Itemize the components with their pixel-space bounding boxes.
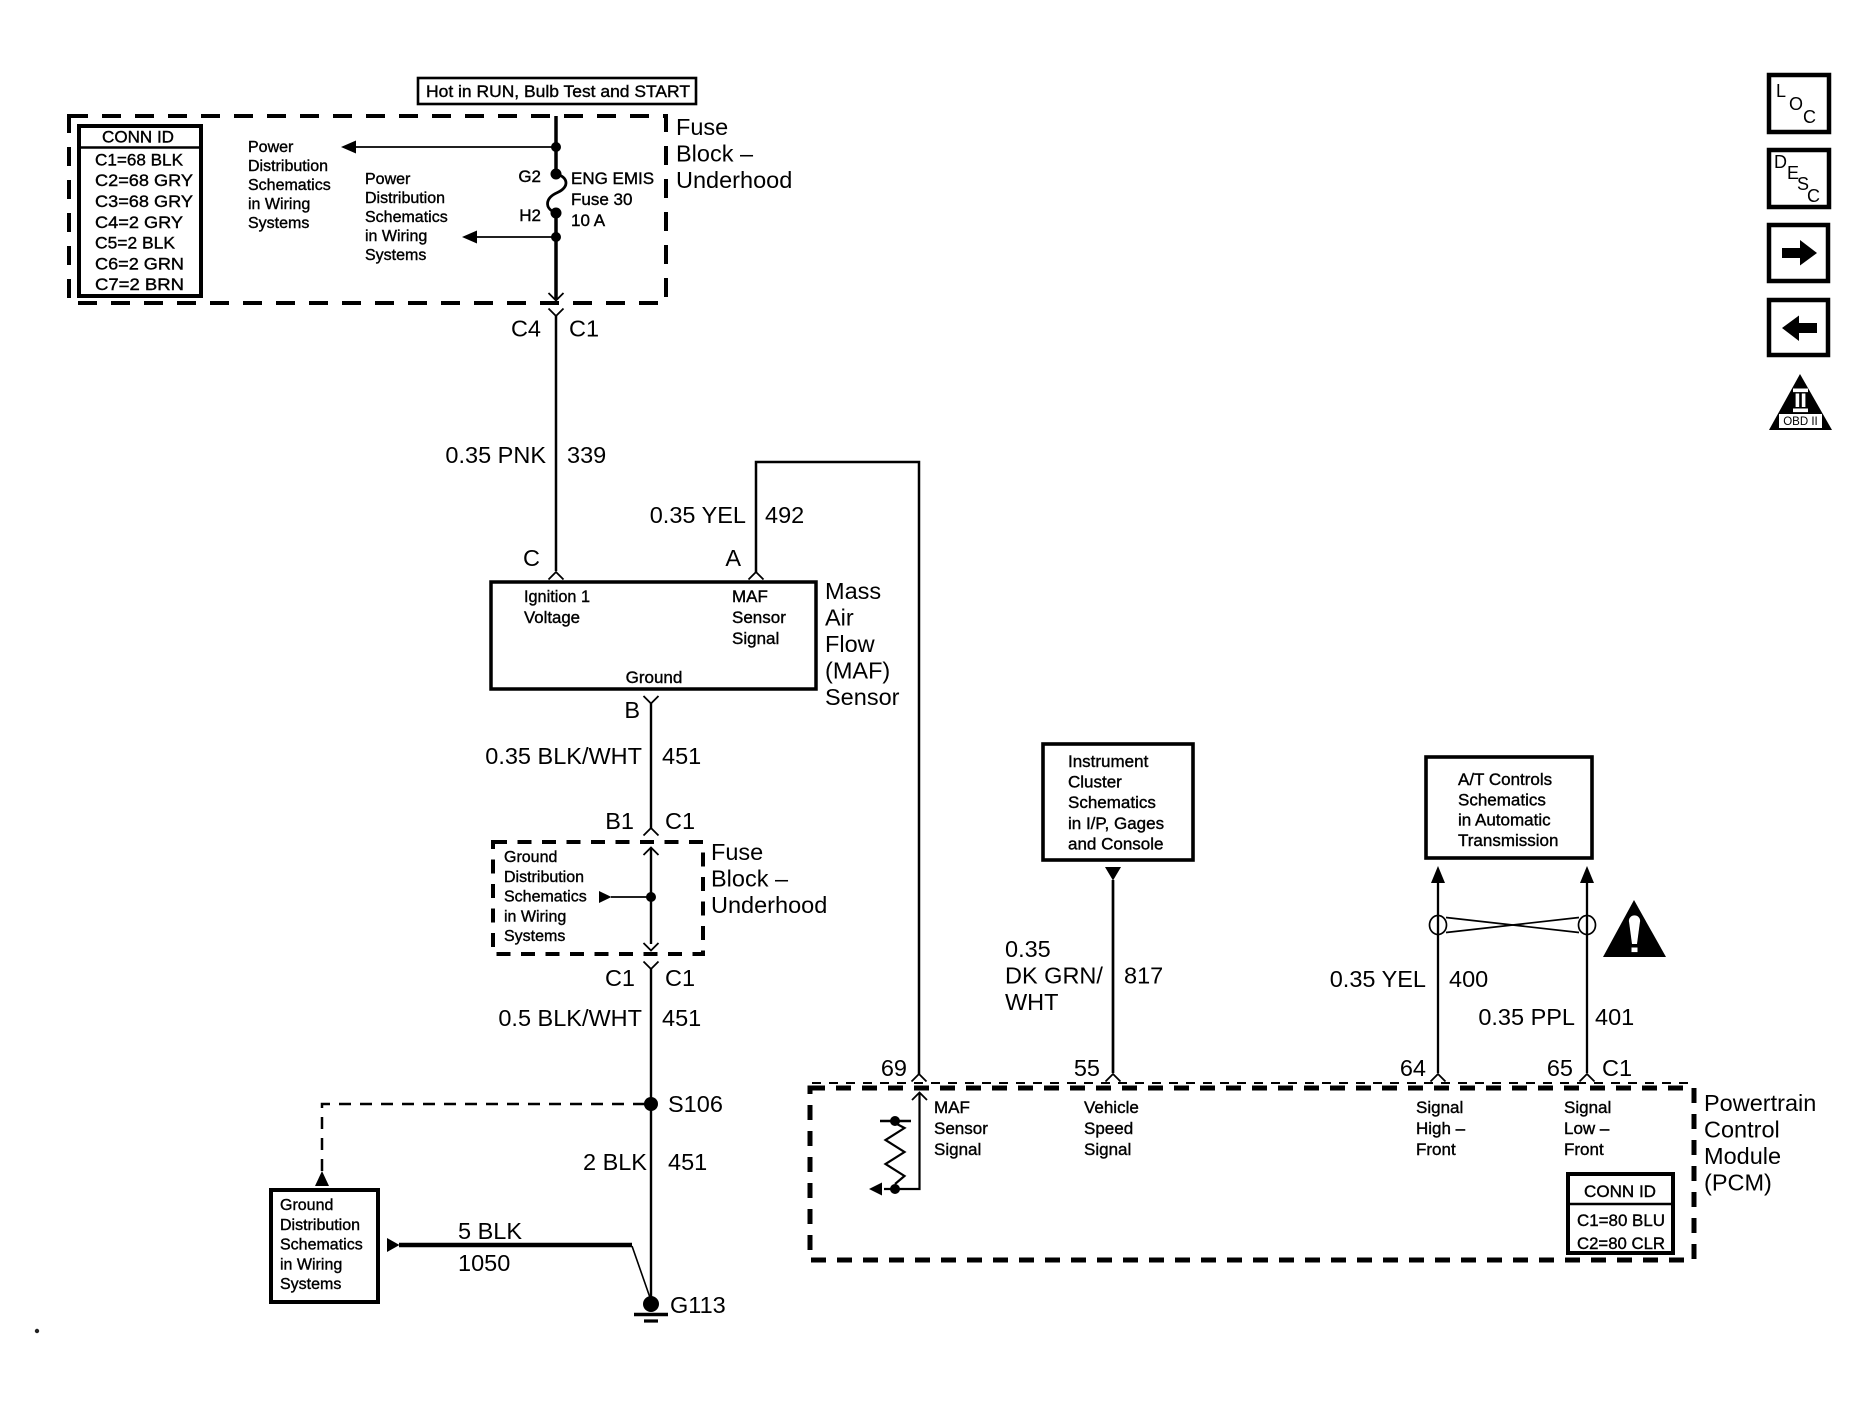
svg-text:339: 339 <box>567 442 606 468</box>
svg-text:Signal: Signal <box>1084 1140 1131 1159</box>
svg-text:Cluster: Cluster <box>1068 773 1122 792</box>
svg-text:Power: Power <box>365 171 411 188</box>
svg-text:Fuse 30: Fuse 30 <box>571 190 632 209</box>
svg-text:Ground: Ground <box>280 1197 333 1214</box>
svg-text:C: C <box>523 545 540 571</box>
svg-text:L: L <box>1776 81 1786 101</box>
ground G113 <box>634 1296 668 1321</box>
svg-text:Powertrain: Powertrain <box>1704 1090 1816 1116</box>
svg-text:Flow: Flow <box>825 631 876 657</box>
svg-text:B1: B1 <box>605 808 634 834</box>
svg-text:Fuse: Fuse <box>676 114 728 140</box>
svg-text:0.35 YEL: 0.35 YEL <box>1330 966 1426 992</box>
svg-text:Power: Power <box>248 139 294 156</box>
PCM internal arrow left <box>869 1183 882 1196</box>
wire through fuse block <box>650 848 652 945</box>
svg-text:in I/P, Gages: in I/P, Gages <box>1068 814 1164 833</box>
svg-text:Signal: Signal <box>732 629 779 648</box>
svg-text:C2=68 GRY: C2=68 GRY <box>95 171 193 190</box>
svg-text:451: 451 <box>668 1149 707 1175</box>
icon: back arrow box <box>1769 300 1828 355</box>
svg-text:Ground: Ground <box>504 849 557 866</box>
svg-text:C1: C1 <box>665 965 695 991</box>
fuse ENG EMIS Fuse 30 10A (element S-curve) <box>548 174 566 213</box>
fuse block underhood dashed box <box>69 116 666 303</box>
svg-text:G113: G113 <box>670 1292 726 1318</box>
svg-text:DK GRN/: DK GRN/ <box>1005 963 1103 989</box>
note box: Ground Distribution Schematics in Wiring Systems <box>271 1190 378 1302</box>
pin 65 fork at PCM <box>1580 1074 1595 1082</box>
svg-text:C4=2 GRY: C4=2 GRY <box>95 213 183 232</box>
svg-text:Voltage: Voltage <box>524 608 580 627</box>
svg-text:D: D <box>1774 152 1787 172</box>
svg-text:OBD II: OBD II <box>1783 416 1818 428</box>
svg-text:in Wiring: in Wiring <box>280 1256 342 1273</box>
connector C4/C1 (female fork) <box>549 309 564 317</box>
twisted pair symbol <box>1430 916 1596 935</box>
svg-text:Fuse: Fuse <box>711 839 763 865</box>
svg-text:Signal: Signal <box>1564 1098 1611 1117</box>
svg-text:Underhood: Underhood <box>711 892 827 918</box>
svg-text:Low –: Low – <box>1564 1119 1610 1138</box>
svg-text:400: 400 <box>1449 966 1488 992</box>
PCM pin function: Vehicle Speed Signal <box>1084 1098 1139 1159</box>
svg-text:C2=80 CLR: C2=80 CLR <box>1577 1234 1665 1253</box>
svg-text:Front: Front <box>1564 1140 1604 1159</box>
svg-text:451: 451 <box>662 1005 701 1031</box>
PCM pin function: Signal High - Front <box>1416 1098 1466 1159</box>
svg-text:401: 401 <box>1595 1004 1634 1030</box>
junction dot (upper arrow tap) <box>551 142 561 152</box>
svg-text:Front: Front <box>1416 1140 1456 1159</box>
svg-text:Block –: Block – <box>676 141 754 167</box>
svg-text:Distribution: Distribution <box>248 158 328 175</box>
splice S106 <box>644 1097 658 1111</box>
icon: LOC box <box>1769 75 1829 132</box>
svg-text:Distribution: Distribution <box>504 869 584 886</box>
label: Fuse Block - Underhood (ground side) <box>711 839 827 918</box>
svg-text:Sensor: Sensor <box>934 1119 988 1138</box>
pin C fork at MAF sensor <box>549 572 564 580</box>
connector arrow (male, up) inside fuse block <box>644 848 659 856</box>
svg-text:Schematics: Schematics <box>365 209 448 226</box>
svg-text:in Wiring: in Wiring <box>248 196 310 213</box>
svg-text:Instrument: Instrument <box>1068 752 1149 771</box>
svg-text:C1: C1 <box>569 316 599 342</box>
icon: DESC box <box>1769 150 1829 207</box>
wire arrow to power distribution (lower) <box>462 231 556 244</box>
svg-text:CONN ID: CONN ID <box>1584 1182 1656 1201</box>
connector ID table (PCM) <box>1568 1174 1673 1253</box>
pin 55 fork at PCM <box>1106 1074 1121 1082</box>
resistor top node bar <box>880 1120 911 1123</box>
wire label 0.35 DK GRN/ WHT <box>1005 936 1103 1015</box>
svg-text:Schematics: Schematics <box>1068 793 1156 812</box>
wire 400 YEL pin 64 <box>1437 881 1439 1073</box>
terminal H2 dot <box>551 208 562 219</box>
wire 492 YEL: up from pin A, right, and down to PCM pin 69 <box>756 462 919 1074</box>
svg-text:in Wiring: in Wiring <box>504 908 566 925</box>
svg-text:55: 55 <box>1074 1055 1100 1081</box>
PCM internal wire from pin 69 <box>884 1093 920 1190</box>
svg-text:Schematics: Schematics <box>280 1237 363 1254</box>
PCM pin function: MAF Sensor Signal <box>934 1098 988 1159</box>
fuse value label <box>571 169 654 230</box>
svg-text:Speed: Speed <box>1084 1119 1133 1138</box>
svg-text:10 A: 10 A <box>571 211 606 230</box>
svg-text:MAF: MAF <box>934 1098 970 1117</box>
icon: forward arrow box <box>1769 225 1828 281</box>
label: Mass Air Flow (MAF) Sensor <box>825 578 900 710</box>
svg-text:0.35: 0.35 <box>1005 936 1051 962</box>
svg-text:WHT: WHT <box>1005 989 1059 1015</box>
svg-text:C6=2 GRN: C6=2 GRN <box>95 254 184 273</box>
wire: fuse output down <box>554 213 558 299</box>
resistor top node dot <box>890 1116 900 1126</box>
fuse block underhood dashed box (ground side) <box>493 842 703 954</box>
svg-text:MAF: MAF <box>732 587 768 606</box>
wire 817 DK GRN/WHT down to pin 55 <box>1112 880 1115 1073</box>
svg-text:C1: C1 <box>605 965 635 991</box>
label box: Hot in RUN, Bulb Test and START <box>418 78 696 104</box>
svg-text:Systems: Systems <box>504 928 565 945</box>
svg-text:in Wiring: in Wiring <box>365 228 427 245</box>
warning triangle (twisted pair note) <box>1603 900 1666 957</box>
PCM connector face (thin dashed line) <box>812 1082 1692 1084</box>
svg-text:S106: S106 <box>668 1091 723 1117</box>
svg-text:High –: High – <box>1416 1119 1466 1138</box>
wire 451 down to S106 and G113 <box>650 969 652 1304</box>
svg-text:2 BLK: 2 BLK <box>583 1149 647 1175</box>
svg-text:1050: 1050 <box>458 1250 510 1276</box>
svg-text:Schematics: Schematics <box>504 889 587 906</box>
svg-text:Ground: Ground <box>626 668 683 687</box>
svg-text:Systems: Systems <box>248 215 309 232</box>
svg-text:Signal: Signal <box>934 1140 981 1159</box>
PCM internal junction dot <box>890 1184 900 1194</box>
svg-text:Distribution: Distribution <box>280 1217 360 1234</box>
svg-text:C: C <box>1807 186 1820 206</box>
svg-text:0.35 PNK: 0.35 PNK <box>445 442 546 468</box>
svg-text:69: 69 <box>881 1055 907 1081</box>
svg-text:B: B <box>624 697 640 723</box>
svg-text:CONN ID: CONN ID <box>102 128 174 147</box>
MAF pin function: MAF Sensor Signal <box>732 587 786 648</box>
svg-text:Sensor: Sensor <box>825 684 900 710</box>
svg-text:Systems: Systems <box>365 247 426 264</box>
svg-text:C1=80 BLU: C1=80 BLU <box>1577 1211 1665 1230</box>
svg-text:and Console: and Console <box>1068 834 1163 853</box>
wire arrow to power distribution (upper) <box>341 141 556 154</box>
label: Powertrain Control Module (PCM) <box>1704 1090 1816 1196</box>
svg-text:H2: H2 <box>519 206 541 225</box>
note: Ground Distribution Schematics in Wiring Systems (in fuse block) <box>504 849 587 945</box>
svg-text:0.5 BLK/WHT: 0.5 BLK/WHT <box>498 1005 642 1031</box>
PCM pin function: Signal Low - Front <box>1564 1098 1611 1159</box>
svg-text:C: C <box>1803 107 1816 127</box>
svg-text:ENG EMIS: ENG EMIS <box>571 169 654 188</box>
junction dot (lower arrow tap) <box>551 232 561 242</box>
svg-text:C5=2 BLK: C5=2 BLK <box>95 234 176 253</box>
svg-text:O: O <box>1789 94 1803 114</box>
svg-text:0.35 PPL: 0.35 PPL <box>1478 1004 1575 1030</box>
wire 401 PPL pin 65 <box>1586 881 1588 1073</box>
MAF pin function: Ignition 1 Voltage <box>524 587 590 627</box>
svg-text:Module: Module <box>1704 1143 1781 1169</box>
svg-text:(PCM): (PCM) <box>1704 1170 1772 1196</box>
svg-text:492: 492 <box>765 502 804 528</box>
svg-text:(MAF): (MAF) <box>825 658 890 684</box>
Powertrain Control Module dashed box <box>810 1088 1694 1260</box>
wire: battery feed down from Hot in RUN <box>554 116 558 174</box>
pin 69 fork at PCM <box>912 1074 927 1082</box>
svg-text:in Automatic: in Automatic <box>1458 811 1551 830</box>
connector C1/C1 fork (female, below block) <box>644 962 659 970</box>
svg-text:64: 64 <box>1400 1055 1426 1081</box>
svg-text:C1=68 BLK: C1=68 BLK <box>95 150 184 169</box>
arrow tap to ground distribution <box>599 891 656 903</box>
dashed branch wire to ground distribution <box>322 1104 645 1171</box>
svg-text:Control: Control <box>1704 1117 1780 1143</box>
svg-text:Hot in RUN, Bulb Test and STAR: Hot in RUN, Bulb Test and START <box>426 82 690 101</box>
wire 339 PNK down to MAF sensor <box>555 316 558 571</box>
note box: Instrument Cluster Schematics in I/P, Gages and Console <box>1043 744 1193 860</box>
resistor (pull-up) inside PCM <box>886 1123 905 1184</box>
arrow (up) to A/T controls from pin 65 wire <box>1580 866 1594 883</box>
svg-text:Sensor: Sensor <box>732 608 786 627</box>
svg-text:Transmission: Transmission <box>1458 831 1558 850</box>
svg-text:817: 817 <box>1124 963 1163 989</box>
svg-text:A/T Controls: A/T Controls <box>1458 770 1552 789</box>
MAF sensor box <box>491 582 816 689</box>
svg-text:C1: C1 <box>1602 1055 1632 1081</box>
PCM internal: arrow up to pin 69 <box>912 1093 927 1101</box>
note box: A/T Controls Schematics in Automatic Transmission <box>1426 757 1592 858</box>
svg-text:Schematics: Schematics <box>1458 790 1546 809</box>
svg-text:C1: C1 <box>665 808 695 834</box>
connector B1/C1 fork (female, above fuse block) <box>644 828 659 836</box>
connector arrow (male, down) at block bottom <box>644 943 659 951</box>
svg-text:0.35 YEL: 0.35 YEL <box>650 502 746 528</box>
svg-text:C3=68 GRY: C3=68 GRY <box>95 192 193 211</box>
icon: OBD II triangle <box>1769 374 1832 430</box>
pin B fork under MAF sensor <box>644 696 659 704</box>
wire 451 BLK/WHT down from pin B <box>650 704 652 829</box>
arrow (down) from instrument cluster box <box>1105 867 1121 881</box>
svg-text:Block –: Block – <box>711 866 789 892</box>
svg-text:Schematics: Schematics <box>248 177 331 194</box>
svg-text:C4: C4 <box>511 316 541 342</box>
svg-text:5 BLK: 5 BLK <box>458 1218 522 1244</box>
svg-text:Distribution: Distribution <box>365 190 445 207</box>
svg-text:Signal: Signal <box>1416 1098 1463 1117</box>
pin 64 fork at PCM <box>1431 1074 1446 1082</box>
label: Fuse Block - Underhood (top) <box>676 114 792 193</box>
svg-text:Systems: Systems <box>280 1276 341 1293</box>
pin A fork at MAF sensor <box>749 572 764 580</box>
svg-text:G2: G2 <box>518 167 541 186</box>
arrow (up) to ground distribution box <box>315 1171 329 1186</box>
svg-text:A: A <box>725 545 741 571</box>
svg-text:65: 65 <box>1547 1055 1573 1081</box>
svg-text:Air: Air <box>825 605 854 631</box>
connector ID table (fuse block) <box>79 126 201 296</box>
stray scan dot <box>35 1329 39 1333</box>
svg-text:451: 451 <box>662 743 701 769</box>
note: Power Distribution Schematics in Wiring Systems (left) <box>248 139 331 232</box>
svg-text:Vehicle: Vehicle <box>1084 1098 1139 1117</box>
svg-text:C7=2 BRN: C7=2 BRN <box>95 275 184 294</box>
terminal G2 dot <box>551 169 562 180</box>
svg-text:Ignition 1: Ignition 1 <box>524 587 590 606</box>
note: Power Distribution Schematics in Wiring Systems (right) <box>365 171 448 264</box>
connector arrow (male, down) at fuse block edge <box>549 293 564 301</box>
svg-text:0.35 BLK/WHT: 0.35 BLK/WHT <box>485 743 642 769</box>
svg-text:Underhood: Underhood <box>676 167 792 193</box>
arrow (up) to A/T controls from pin 64 wire <box>1431 866 1445 883</box>
svg-text:Mass: Mass <box>825 578 881 604</box>
wire 1050 5 BLK to ground distribution <box>387 1238 651 1299</box>
